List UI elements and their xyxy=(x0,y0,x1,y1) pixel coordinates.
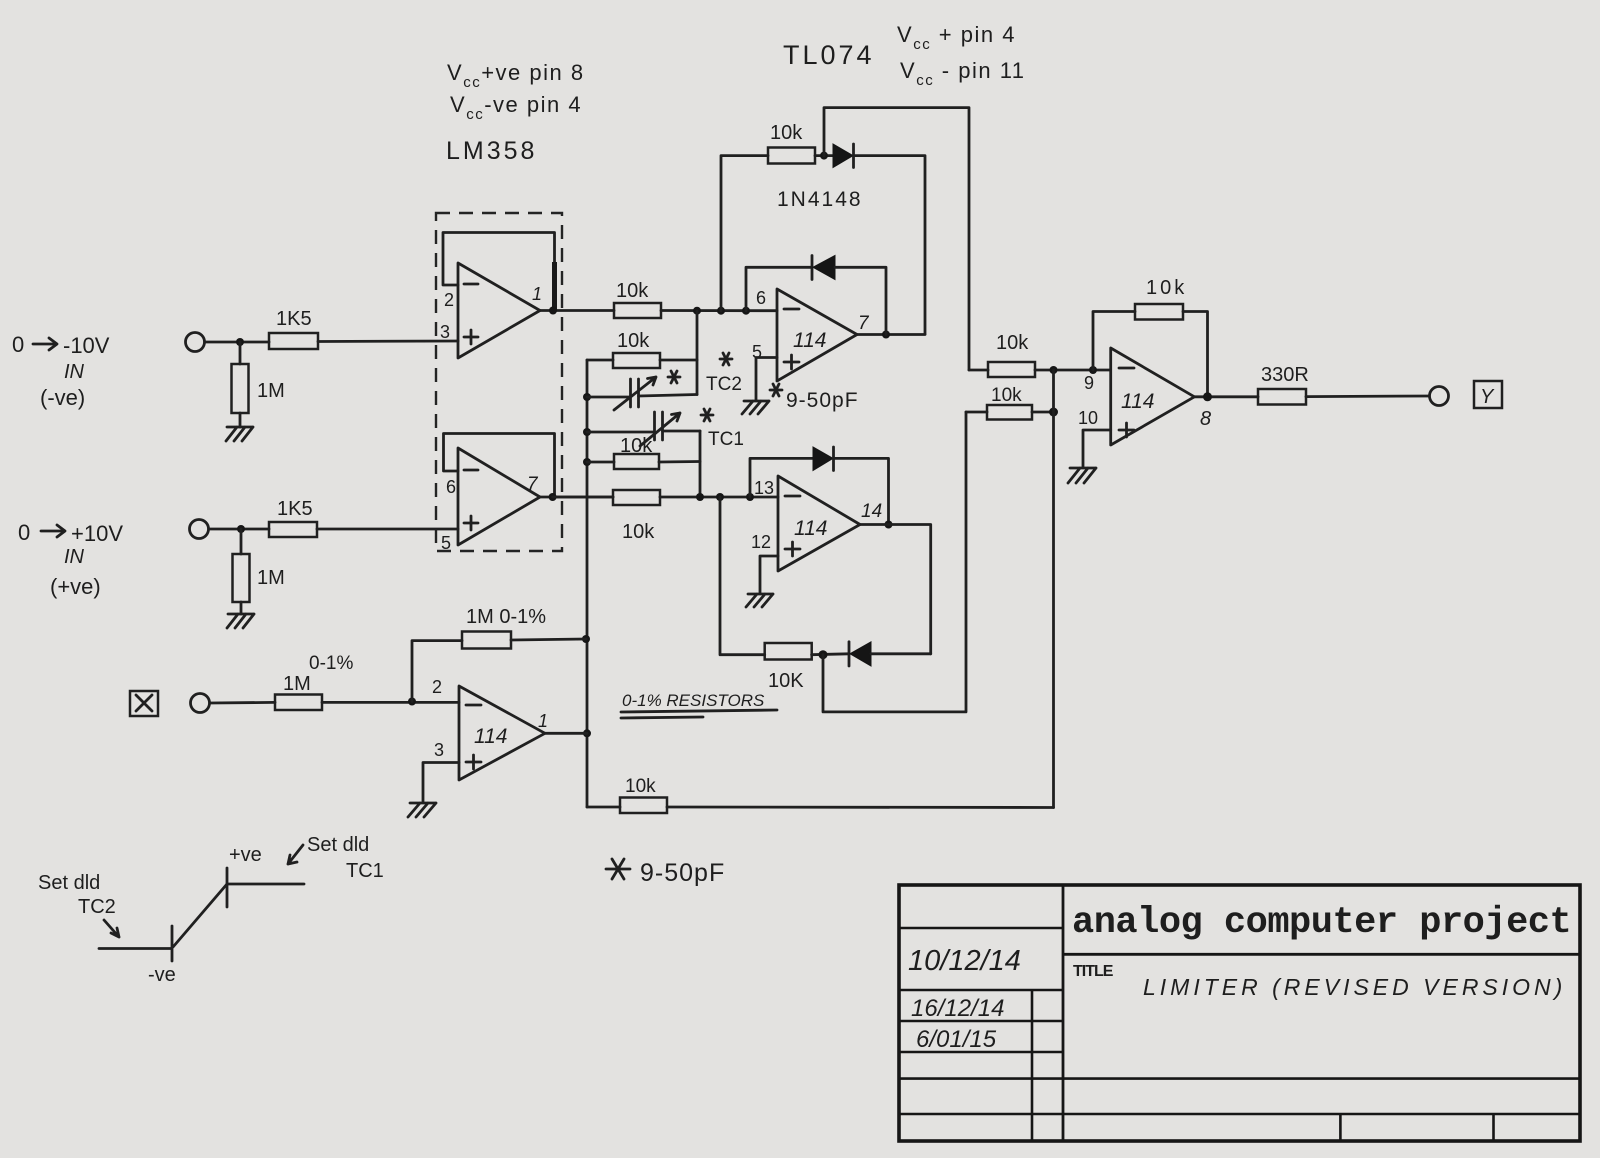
resistor R16 1M 0-1% xyxy=(275,653,353,710)
wire summing vertical down to R17 wire xyxy=(1052,370,1055,808)
svg-text:10K: 10K xyxy=(768,670,804,692)
resistor R14 10k feedback xyxy=(1135,277,1187,320)
node D3 output junction xyxy=(885,521,893,529)
svg-text:1N4148: 1N4148 xyxy=(777,188,863,211)
ground U2d pin3 xyxy=(408,803,436,817)
wire R18 to summing vertical xyxy=(667,806,1054,809)
wire D3 loop from pin13 node xyxy=(750,458,813,497)
svg-text:6: 6 xyxy=(446,477,456,497)
node pin13 junctions xyxy=(696,493,754,501)
node X input junction xyxy=(408,698,416,706)
svg-text:0-1%: 0-1% xyxy=(309,653,353,674)
wire R8 to D1 xyxy=(815,154,833,157)
svg-text:330R: 330R xyxy=(1261,364,1309,386)
svg-text:0: 0 xyxy=(18,520,30,545)
wire D2 loop from pin6 node xyxy=(746,267,812,310)
svg-text:10/12/14: 10/12/14 xyxy=(908,945,1021,977)
wire R5 to U2a pin6 xyxy=(661,309,777,312)
diode D2 xyxy=(812,256,835,280)
op-amp U1b LM358 xyxy=(441,448,540,553)
wire D1 to U2a output vertical xyxy=(855,156,925,334)
svg-text:1M: 1M xyxy=(257,567,285,589)
svg-text:TITLE: TITLE xyxy=(1073,963,1114,980)
star mark 9-50pF U2a xyxy=(770,384,782,396)
svg-text:3: 3 xyxy=(440,322,450,342)
wire pin6 node up to R8 xyxy=(721,156,768,311)
svg-text:+10V: +10V xyxy=(71,521,123,546)
wire R16 to U2d pin2 xyxy=(322,701,459,704)
svg-text:10k: 10k xyxy=(616,280,649,302)
svg-text:8: 8 xyxy=(1200,408,1211,430)
svg-text:7: 7 xyxy=(527,474,539,495)
ground U2a pin5 xyxy=(742,401,769,414)
svg-text:13: 13 xyxy=(754,478,774,498)
terminal input -ve xyxy=(186,333,205,352)
wire clamp top to bus right xyxy=(824,108,969,370)
op-amp U2d TL074 X buffer xyxy=(432,677,548,780)
svg-text:6: 6 xyxy=(756,288,766,308)
svg-text:2: 2 xyxy=(444,290,454,310)
node bus junctions xyxy=(582,393,591,737)
wire vertical TC1 R7 to pin13 node xyxy=(699,431,702,497)
resistor R3 1K5 xyxy=(269,498,317,537)
svg-text:14: 14 xyxy=(861,501,882,522)
svg-text:10k: 10k xyxy=(617,330,650,352)
diode D1 1N4148 xyxy=(833,144,854,168)
svg-text:Set dld: Set dld xyxy=(38,872,100,894)
node label input +ve 0 to +10V IN xyxy=(18,520,123,599)
terminal input X xyxy=(191,694,210,713)
wire R17 to bus xyxy=(511,639,586,640)
note TL074 supply pins xyxy=(897,22,1026,89)
wire clamp bottom to bus right xyxy=(823,412,966,712)
resistor R2 1M xyxy=(232,364,285,413)
ground input -ve xyxy=(226,427,253,441)
wire U2c output to R15 xyxy=(1194,395,1258,398)
terminal input +ve xyxy=(190,520,209,539)
wire U2c pin10 to ground xyxy=(1083,430,1111,467)
star mark TC2 a xyxy=(668,371,680,383)
star mark 9-50pF main xyxy=(606,859,630,879)
svg-text:5: 5 xyxy=(441,533,451,553)
node junction input +ve xyxy=(237,525,245,533)
wire R4 to ground xyxy=(240,602,243,614)
resistor R5 10k xyxy=(614,280,661,318)
wire R10 to U2b pin13 xyxy=(660,496,778,499)
node R5 output junctions xyxy=(693,307,750,315)
wire U1b output to R10 xyxy=(553,496,613,499)
wire U2d pin3 to ground xyxy=(423,763,459,803)
title block frame xyxy=(899,885,1580,1141)
wire input +ve to R3 xyxy=(209,528,269,531)
wire U2a output xyxy=(857,333,925,336)
svg-text:(+ve): (+ve) xyxy=(50,574,101,599)
wire D3 to U2b output vertical xyxy=(835,458,889,524)
svg-text:10k: 10k xyxy=(620,435,653,457)
resistor R8 10k feedback xyxy=(768,122,815,164)
node label Y box xyxy=(1474,381,1502,408)
wire vertical pin6-node to R6 and TC2 xyxy=(696,311,699,395)
star mark TC2 b xyxy=(720,353,732,365)
wire U2a pin5 to ground xyxy=(756,358,777,401)
svg-text:114: 114 xyxy=(793,329,826,352)
svg-text:3: 3 xyxy=(434,740,444,760)
dashed box LM358 package xyxy=(436,213,562,551)
wire node bus X-output vertical xyxy=(586,360,589,807)
wire input -ve to R1 xyxy=(205,341,269,344)
op-amp U2b TL074 xyxy=(751,476,882,571)
node label X box xyxy=(130,691,158,716)
wire U1b feedback loop xyxy=(444,434,555,496)
svg-text:analog computer project: analog computer project xyxy=(1072,902,1571,944)
svg-text:10k: 10k xyxy=(622,521,655,543)
diode D3 xyxy=(813,447,834,471)
svg-text:9-50pF: 9-50pF xyxy=(786,389,859,412)
wire junction up to R17 feedback xyxy=(412,641,462,702)
svg-text:10: 10 xyxy=(1078,408,1098,428)
node output feedback junction xyxy=(1203,392,1212,401)
wire U1b output to R10 xyxy=(540,496,613,499)
wire U1a feedback thick segment xyxy=(552,262,557,310)
wire junction to R2 xyxy=(239,342,242,364)
node U2a output diode junction xyxy=(882,331,890,339)
svg-text:10k: 10k xyxy=(1146,277,1187,299)
capacitor TC1 trimmer xyxy=(587,412,744,450)
svg-text:TC2: TC2 xyxy=(706,374,742,395)
wire junction to R4 xyxy=(240,529,243,554)
wire D4 to U2b output xyxy=(871,652,931,655)
wire R1 to U1a pin3 xyxy=(318,340,458,343)
node pin9 junctions xyxy=(1050,366,1098,374)
wire D2 to U2a output xyxy=(835,267,886,334)
svg-text:2: 2 xyxy=(432,677,442,697)
op-amp U2a TL074 xyxy=(752,288,870,381)
star mark TC1 xyxy=(701,409,713,421)
svg-text:TC1: TC1 xyxy=(708,429,744,450)
resistor R10 10k xyxy=(613,490,660,543)
svg-text:-ve: -ve xyxy=(148,964,176,986)
diode D4 xyxy=(849,642,871,666)
svg-text:10k: 10k xyxy=(770,122,803,144)
svg-text:10k: 10k xyxy=(996,332,1029,354)
svg-text:LIMITER (REVISED VERSION): LIMITER (REVISED VERSION) xyxy=(1143,974,1566,1000)
node label input -ve 0 to -10V IN xyxy=(12,332,110,410)
resistor R17 1M 0-1% feedback xyxy=(462,606,546,649)
wire R15 to terminal Y xyxy=(1306,395,1429,398)
node R11 D4 junction xyxy=(819,650,828,659)
svg-text:LM358: LM358 xyxy=(446,137,537,165)
svg-text:12: 12 xyxy=(751,532,771,552)
wire lower feedback from pin13 node xyxy=(720,497,765,655)
svg-text:1K5: 1K5 xyxy=(277,498,313,520)
terminal output Y xyxy=(1430,387,1449,406)
ground U2b pin12 xyxy=(746,594,773,607)
svg-text:9: 9 xyxy=(1084,373,1094,393)
ground U2c pin10 xyxy=(1068,468,1096,483)
svg-text:10k: 10k xyxy=(625,776,656,797)
resistor R4 1M xyxy=(233,554,285,602)
wire U2c feedback R14 xyxy=(1093,312,1135,371)
svg-text:1: 1 xyxy=(532,284,542,304)
wire R2 to ground xyxy=(239,413,242,427)
wire R14 to output xyxy=(1183,312,1208,397)
svg-text:(-ve): (-ve) xyxy=(40,385,85,410)
node U1b output xyxy=(549,493,557,501)
resistor R11 10k xyxy=(765,643,812,692)
resistor R6 10k xyxy=(587,330,697,368)
svg-text:TL074: TL074 xyxy=(783,40,875,70)
svg-text:TC1: TC1 xyxy=(346,860,384,882)
wire R11 to D4 xyxy=(812,652,849,656)
svg-text:Y: Y xyxy=(1480,386,1495,408)
svg-text:-10V: -10V xyxy=(63,333,110,358)
svg-text:IN: IN xyxy=(64,546,85,568)
op-amp U1a LM358 xyxy=(440,263,542,358)
svg-text:1: 1 xyxy=(538,711,548,731)
node U1a output xyxy=(549,307,557,315)
note trimmer setting diagram xyxy=(38,834,384,986)
svg-text:10k: 10k xyxy=(991,385,1022,406)
wire U2b pin12 to ground xyxy=(760,556,778,593)
op-amp U2c TL074 output stage xyxy=(1078,348,1211,445)
wire U2b output xyxy=(860,525,931,654)
svg-text:7: 7 xyxy=(858,313,870,334)
capacitor TC2 trimmer xyxy=(587,374,742,410)
wire U2d output to bus xyxy=(545,732,587,735)
wire X terminal to R16 xyxy=(210,701,275,704)
svg-text:114: 114 xyxy=(1121,390,1154,413)
wire U1a output to R5 xyxy=(540,309,614,312)
svg-text:16/12/14: 16/12/14 xyxy=(911,995,1004,1022)
svg-text:1M: 1M xyxy=(257,380,285,402)
resistor R7 10k xyxy=(587,435,700,469)
svg-text:9-50pF: 9-50pF xyxy=(640,859,725,887)
ground input +ve xyxy=(227,614,254,628)
svg-text:0: 0 xyxy=(12,332,24,357)
resistor R13 10k clamp2 to summing node xyxy=(966,385,1054,420)
node R8 D1 junction xyxy=(820,152,828,160)
svg-text:6/01/15: 6/01/15 xyxy=(916,1026,997,1053)
resistor R1 1K5 xyxy=(269,308,318,349)
note LM358 supply pins xyxy=(447,60,585,123)
svg-text:1M: 1M xyxy=(283,673,311,695)
svg-text:+ve: +ve xyxy=(229,844,262,866)
resistor R15 330R xyxy=(1258,364,1309,405)
resistor R12 10k to pin9 xyxy=(969,332,1110,377)
svg-text:0-1% RESISTORS: 0-1% RESISTORS xyxy=(622,691,765,710)
node junction input -ve xyxy=(236,338,244,346)
node R13 junction xyxy=(1049,408,1058,417)
svg-text:Set dld: Set dld xyxy=(307,834,369,856)
svg-text:114: 114 xyxy=(794,517,827,540)
wire U1a feedback loop xyxy=(443,233,555,309)
svg-text:TC2: TC2 xyxy=(78,896,116,918)
svg-text:1M 0-1%: 1M 0-1% xyxy=(466,606,546,628)
note 0-1% resistors xyxy=(621,691,777,718)
svg-text:1K5: 1K5 xyxy=(276,308,312,330)
wire R3 to U1b pin5 xyxy=(317,528,458,531)
svg-text:114: 114 xyxy=(474,725,507,748)
svg-text:IN: IN xyxy=(64,361,85,383)
resistor R18 10k summing xyxy=(587,776,667,813)
